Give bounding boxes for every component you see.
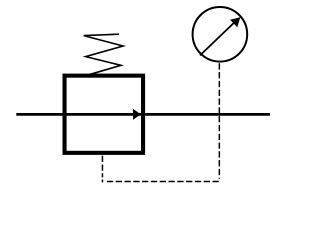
- gauge needle arrowhead: [230, 17, 240, 27]
- flow direction arrowhead: [133, 109, 141, 120]
- pressure regulator body: [65, 76, 144, 153]
- spring: [84, 34, 123, 75]
- pilot line: vertical dashed from regulator bottom: [101, 156, 103, 178]
- pilot line: bottom horizontal dashed: [107, 181, 220, 183]
- pilot line: corner dash: [101, 180, 103, 183]
- pilot line: vertical dashed up to gauge: [218, 63, 220, 179]
- gauge needle: [200, 20, 237, 55]
- wire: main flow line: [16, 113, 270, 116]
- pressure gauge circle: [193, 7, 248, 62]
